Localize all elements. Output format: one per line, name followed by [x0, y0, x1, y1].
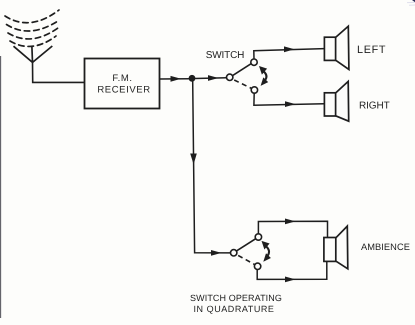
wire junction to switch S2: [190, 82, 230, 256]
speaker LEFT: [324, 26, 349, 69]
switch S2 (operating in quadrature): [231, 234, 271, 270]
wire switch S2 to AMBIENCE speaker bottom: [257, 262, 327, 283]
svg-text:SWITCH OPERATING: SWITCH OPERATING: [190, 293, 282, 303]
speaker RIGHT: [324, 81, 348, 121]
junction node: [189, 75, 196, 82]
antenna ANT: [5, 10, 60, 62]
switch S1: [227, 59, 269, 93]
svg-text:SWITCH: SWITCH: [206, 50, 245, 61]
wire switch S1 to RIGHT speaker: [254, 93, 324, 107]
wire receiver to junction: [160, 76, 191, 82]
wire switch S1 to LEFT speaker: [254, 46, 324, 59]
svg-text:AMBIENCE: AMBIENCE: [361, 242, 410, 252]
svg-text:F.M.: F.M.: [112, 73, 132, 84]
wire junction to switch S1: [195, 75, 227, 81]
svg-text:LEFT: LEFT: [357, 44, 386, 56]
wire switch S2 to AMBIENCE speaker top: [258, 219, 327, 238]
svg-text:IN QUADRATURE: IN QUADRATURE: [194, 304, 275, 314]
wire antenna to receiver: [33, 62, 85, 83]
speaker AMBIENCE: [324, 226, 348, 269]
svg-text:RIGHT: RIGHT: [359, 100, 390, 111]
label SWITCH OPERATING IN QUADRATURE: [190, 293, 282, 314]
block F.M. RECEIVER: [85, 59, 160, 109]
svg-text:RECEIVER: RECEIVER: [97, 85, 150, 96]
